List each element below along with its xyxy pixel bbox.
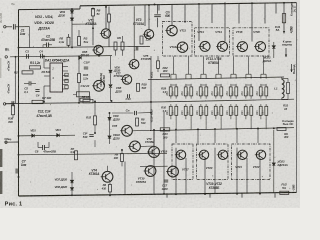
wire top tap 3 bbox=[171, 4, 173, 25]
opamp pin pads bbox=[65, 73, 68, 76]
module box VT22 VT23 lower bbox=[232, 144, 271, 180]
capacitor C8 bbox=[42, 145, 44, 150]
wire railD tap 4 bbox=[236, 129, 238, 143]
wire top tap 7 bbox=[224, 4, 226, 42]
resistor R23 on rail D bbox=[160, 128, 170, 131]
wire x122 bbox=[121, 150, 123, 153]
wire top rail step bbox=[79, 6, 81, 9]
transistor VT15 bbox=[236, 42, 248, 52]
resistor R18 bbox=[137, 83, 140, 91]
resistor R7 on rail bbox=[32, 100, 43, 103]
resistor R17 bottom bbox=[80, 98, 90, 101]
junction dots bbox=[71, 8, 73, 10]
wire top tap 2 bbox=[158, 5, 160, 11]
wire top main +supply rail bbox=[80, 3, 297, 6]
wire lower tap 2 bbox=[163, 112, 165, 194]
transistor VT3 bbox=[143, 30, 154, 39]
wire VT4 emitter stub bbox=[109, 182, 111, 184]
scan speckles bbox=[28, 12, 298, 194]
transistor VT17 bbox=[166, 166, 178, 177]
wire x154 lower bbox=[157, 18, 159, 28]
arrow +26V in bbox=[283, 23, 285, 34]
wire x151 long vertical bbox=[150, 56, 152, 130]
diode VD17 right column bbox=[272, 46, 275, 49]
terminal +supply left bbox=[5, 56, 7, 58]
wire emitter bus hooks bbox=[171, 73, 176, 75]
wire top tap 6 bbox=[211, 4, 213, 23]
diode VD5 zener bbox=[79, 56, 82, 59]
transistor VT12 driver lower bbox=[147, 147, 160, 158]
resistor R2 pot bbox=[22, 71, 33, 74]
wire fuse leads bbox=[283, 3, 285, 13]
wire opamp feeds bbox=[43, 56, 45, 68]
terminal Obshch bbox=[5, 141, 7, 143]
resistor pair R29 row1 bbox=[259, 87, 262, 96]
scan smudge left edge bbox=[0, 149, 2, 167]
wire stage links bbox=[122, 36, 124, 42]
component electrolytic block bbox=[77, 92, 90, 97]
arrow output bbox=[291, 64, 293, 72]
fuse FU2 bbox=[280, 191, 289, 194]
capacitor C5 bbox=[28, 81, 30, 85]
wire bottom -supply rail bbox=[19, 192, 297, 196]
diode VD8 bbox=[109, 70, 112, 73]
wire railD tap 5 bbox=[257, 129, 259, 143]
resistor R7b bbox=[75, 151, 78, 160]
diode VD10a bbox=[109, 85, 112, 88]
wire lower tap 4 bbox=[185, 158, 187, 194]
wire input lead bbox=[6, 26, 12, 28]
transistor VT4 bbox=[101, 171, 113, 182]
wire left col x15.5 bbox=[15, 57, 17, 104]
wire C8 leads bbox=[38, 147, 42, 149]
resistor R15b bbox=[94, 116, 97, 125]
wire top tap 11 bbox=[275, 3, 277, 14]
capacitor C17 bbox=[164, 179, 168, 181]
wire emitter drops bbox=[173, 56, 175, 74]
wire lower tap 6 bbox=[214, 148, 216, 194]
transistor VT16 bbox=[254, 42, 266, 52]
wire term to cap bbox=[6, 103, 12, 105]
transistor VT22b bbox=[236, 150, 247, 159]
wire lower drive rail y130 bbox=[150, 128, 294, 131]
wire lower tap 9 bbox=[259, 158, 261, 194]
wire C1 to stage bbox=[15, 26, 29, 28]
wire x109 vertical bbox=[108, 7, 110, 15]
wire top tap 4 bbox=[184, 4, 186, 23]
junction dots rails bbox=[71, 8, 73, 10]
capacitor C3 bbox=[26, 54, 28, 59]
wire x72 bottom col bbox=[71, 172, 73, 180]
transistor VT23b bbox=[255, 150, 266, 159]
resistor R8 top bbox=[92, 8, 95, 16]
diode VD3 bbox=[70, 11, 73, 14]
resistor R6 top x109 bbox=[108, 14, 111, 22]
wire lower tap 1 bbox=[153, 130, 155, 194]
transistor VT8 mid bbox=[120, 125, 132, 136]
capacitor C7 left border bbox=[15, 169, 17, 174]
wire emitter bus y79 bbox=[148, 77, 284, 80]
wire x109 lower col bbox=[109, 113, 111, 117]
resistor pair R30 row2 bbox=[169, 106, 172, 115]
diode VD8c bbox=[70, 188, 73, 191]
resistor pair R24 row1 bbox=[184, 87, 187, 96]
wire C5 link bbox=[24, 82, 29, 84]
diode VD7c bbox=[70, 180, 73, 183]
resistor pair R27 row1 bbox=[229, 87, 232, 96]
transistor VT2 bbox=[92, 45, 103, 54]
resistor pair R36 row2 bbox=[259, 106, 262, 115]
capacitor C16 bbox=[134, 111, 136, 115]
module box VT13 VT14 bbox=[195, 28, 230, 56]
wire input signal rail y47 bbox=[19, 46, 151, 47]
capacitor C10 bbox=[84, 66, 88, 68]
capacitor Cp600 bbox=[154, 14, 161, 16]
wire bottom ticks bbox=[166, 193, 168, 197]
wire x125 vertical lower bbox=[124, 162, 126, 195]
wire top tap 1 bbox=[144, 5, 146, 26]
terminal input Vx bbox=[4, 26, 6, 28]
transistor VT5 bbox=[128, 59, 139, 68]
wire x158 bbox=[157, 56, 159, 61]
wire VD23 col bbox=[273, 130, 275, 163]
resistor pair R32 row2 bbox=[199, 106, 202, 115]
module box VT15 VT16 bbox=[233, 28, 269, 56]
diode VD4 bbox=[70, 18, 73, 21]
inductor L1 bbox=[282, 80, 284, 98]
fuse FU1 bbox=[282, 14, 285, 23]
wire top tap 10 bbox=[264, 3, 266, 24]
wire top tap 9 bbox=[251, 3, 253, 41]
wire lower tap 3 bbox=[175, 148, 177, 194]
resistor R16 bbox=[78, 74, 81, 83]
transistor VT6 big bbox=[92, 80, 104, 91]
wire pair link 3 bbox=[201, 84, 206, 86]
resistor pair R23 row1 bbox=[169, 87, 172, 96]
resistor pair R31 row2 bbox=[184, 106, 187, 115]
diode VD left b bbox=[57, 134, 60, 137]
wire VT5 collector bbox=[133, 6, 135, 59]
resistor R9 bbox=[114, 42, 117, 50]
capacitor C1 bbox=[12, 24, 14, 29]
resistor R10 bbox=[140, 36, 143, 44]
capacitor C6 bbox=[135, 47, 137, 51]
capacitor C11 left bbox=[11, 101, 13, 106]
resistor pair R35 row2 bbox=[244, 106, 247, 115]
resistor pair R34 row2 bbox=[229, 106, 232, 115]
transistor VT7 bbox=[121, 75, 132, 84]
wire R3 top bbox=[78, 30, 80, 37]
transistor VT21b bbox=[217, 150, 228, 159]
transistor VT20b bbox=[198, 150, 209, 159]
diode VD left a bbox=[32, 134, 35, 137]
wire VT1 collector bbox=[105, 7, 107, 29]
resistor R11 bbox=[121, 42, 124, 50]
module box VT19 lower bbox=[172, 144, 193, 180]
resistor R6b bbox=[109, 184, 112, 192]
wire y24 link bbox=[72, 23, 93, 25]
wire railD tap 1 bbox=[175, 129, 177, 143]
wire VT3 collector bbox=[148, 5, 150, 30]
capacitor C6b bbox=[35, 89, 39, 91]
wire pair link 2 bbox=[186, 84, 191, 86]
wire diode pair link y135 bbox=[19, 134, 76, 137]
wire pair link 7 bbox=[261, 84, 266, 86]
wire lower links bbox=[112, 112, 133, 114]
capacitor C4 bbox=[40, 54, 42, 59]
op-amp DA1 bbox=[50, 63, 63, 92]
resistor R5 bbox=[67, 37, 70, 45]
resistor pair R26 row1 bbox=[214, 87, 217, 96]
wire +opamp supply rail y56 bbox=[10, 56, 112, 57]
wire top tap 5 bbox=[198, 4, 200, 41]
wire lower tap 8 bbox=[246, 158, 248, 194]
wire VT10 base link bbox=[140, 165, 168, 167]
wire R16 column bbox=[78, 56, 80, 73]
wire railD tap 2 bbox=[197, 129, 199, 143]
wire ground stub y142 bbox=[5, 141, 19, 143]
transistor VT13 bbox=[199, 41, 211, 51]
wire diode chain x72 bbox=[71, 9, 73, 47]
transistor VT14 bbox=[216, 41, 228, 51]
wire right border bbox=[296, 3, 298, 193]
resistor R5b on rail bbox=[83, 100, 93, 103]
wire VT8 right link bbox=[132, 129, 151, 132]
wire top tap 8 bbox=[238, 3, 240, 23]
wire R8 leads bbox=[92, 7, 94, 10]
capacitor C9 bbox=[89, 134, 93, 136]
resistor R35 parallel L1 bbox=[287, 83, 290, 94]
wire top-left border rail bbox=[19, 8, 81, 11]
transistor VT11 bbox=[165, 25, 177, 35]
wire VT9 right link bbox=[140, 145, 154, 147]
resistor R9c bbox=[121, 154, 124, 162]
transistor VT19 bbox=[175, 150, 186, 159]
wire x154 vertical bbox=[157, 4, 159, 14]
wire R5 stub bbox=[68, 34, 70, 37]
resistor R36 bbox=[12, 105, 15, 115]
wire feedback rail y103 bbox=[5, 102, 163, 104]
diode VD10b bbox=[108, 136, 111, 139]
arrow to protection bbox=[285, 48, 287, 57]
wire lower tap 7 bbox=[236, 148, 238, 194]
diode VD23 bbox=[272, 163, 275, 166]
wire pair link 6 bbox=[246, 84, 251, 86]
wire VD17 column bbox=[273, 42, 275, 45]
resistor pair R25 row1 bbox=[199, 87, 202, 96]
resistor R21 top bbox=[157, 61, 160, 69]
resistor pair R28 row1 bbox=[244, 87, 247, 96]
wire x95 bbox=[94, 101, 96, 116]
wire mid rail right half y101 bbox=[163, 99, 294, 102]
wire C2 leads bbox=[43, 44, 47, 46]
diode VD9b bbox=[108, 117, 111, 120]
module box VT20 VT21 lower bbox=[197, 144, 229, 180]
wire pair link 4 bbox=[216, 84, 221, 86]
wire lower tap 5 bbox=[204, 158, 206, 194]
wire pair link 1 bbox=[171, 84, 176, 86]
wire pair link 5 bbox=[231, 84, 236, 86]
wire lower stage rail y154 bbox=[19, 153, 168, 155]
capacitor C20 box bbox=[277, 128, 286, 131]
capacitor C2 bbox=[46, 43, 48, 48]
resistor R3 bbox=[78, 37, 81, 46]
resistor R1 bbox=[30, 66, 41, 69]
transistor VT9 mid bbox=[128, 141, 140, 152]
wire row2 to rail D bbox=[175, 119, 177, 129]
wire x111 column bbox=[110, 56, 112, 70]
resistor R8b bbox=[136, 118, 139, 126]
wire railD tap 3 bbox=[214, 129, 216, 143]
capacitor C13 bbox=[127, 94, 129, 98]
module box VT11 VT12 bbox=[163, 22, 193, 57]
transistor VT1 bbox=[100, 29, 111, 38]
terminal feedback left bbox=[3, 103, 5, 105]
wire L1 top bottom bbox=[281, 77, 283, 79]
wire left border bbox=[18, 10, 20, 196]
transistor VT10 lower bbox=[144, 166, 156, 177]
resistor R22 bbox=[161, 74, 170, 77]
wire R36 leads bbox=[12, 103, 14, 106]
resistor pair R33 row2 bbox=[214, 106, 217, 115]
transistor VT12 bbox=[176, 42, 188, 52]
